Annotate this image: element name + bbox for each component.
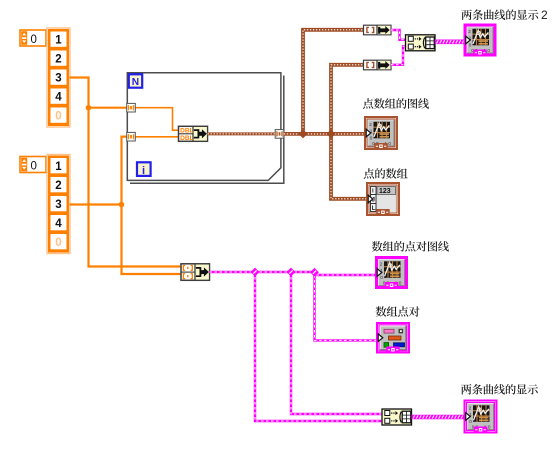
junctions on magenta trunk (251, 268, 260, 277)
bundle node inside loop (DBL,DBL -> cluster) (179, 126, 208, 142)
array constant: second numeric array (1..4) (20, 155, 70, 254)
label: 两条曲线的显示 (461, 384, 538, 395)
svg-text:N: N (132, 77, 139, 88)
bundle node below loop (arrays -> cluster of arrays) (181, 264, 210, 281)
converter node 1 (array to cluster) (364, 25, 392, 35)
branch up to converter node 2 (331, 65, 364, 134)
svg-text:0: 0 (55, 237, 61, 249)
cluster-array wire trunk from loop to graph terminal (brown) (284, 132, 366, 136)
cluster-array rope: build node to XY graph 2 (thick magenta) (435, 39, 464, 44)
svg-text:3: 3 (55, 73, 61, 85)
label: 点的数组 (364, 168, 408, 178)
svg-text:4: 4 (55, 218, 62, 230)
cluster indicator terminal: 数组点对 (377, 323, 409, 353)
branch down to build-cluster-array upper input (291, 272, 383, 414)
label: 数组的点对图线 (372, 241, 449, 252)
cluster wire: bundle to right tunnel (brown) (208, 132, 276, 135)
build cluster array node (top) (406, 35, 436, 51)
cluster wire: node1 to build-cluster-array (magenta) (391, 30, 406, 40)
branch up to converter node 1 (303, 30, 364, 134)
svg-text:DBL: DBL (180, 135, 194, 142)
XY graph terminal: 两条曲线的显示 (465, 401, 497, 434)
svg-text:0: 0 (31, 161, 37, 173)
junction dots on brown trunk (298, 129, 307, 138)
branch down to build-cluster-array lower input (255, 272, 383, 421)
branch down to cluster indicator (315, 275, 378, 340)
svg-text:1: 1 (55, 35, 62, 47)
array constant: top-left numeric array (1..4) (20, 28, 70, 127)
svg-text:2: 2 (55, 180, 61, 192)
svg-text:i: i (142, 165, 145, 177)
wire: array2 to loop tunnel and bundle2 (orange DBL array) (70, 137, 182, 274)
iteration terminal i (137, 162, 151, 176)
build cluster array node (bottom) (382, 409, 412, 425)
cluster wire trunk: bundle2 to XY graph terminal (magenta dashed) (210, 272, 377, 275)
label: 数组点对 (376, 306, 420, 316)
XY graph terminal: 数组的点对图线 (376, 257, 407, 289)
svg-text:2: 2 (55, 54, 61, 66)
junction on array1 wire (86, 105, 92, 111)
svg-text:0: 0 (55, 111, 61, 123)
waveform graph terminal: 点数组的图线 (365, 117, 397, 150)
cluster-array rope: build node to XY graph (thick magenta) (412, 415, 465, 420)
svg-text:1: 1 (55, 161, 62, 173)
svg-text:2: 2 (541, 8, 548, 22)
wire: tunnel1 to bundle inside loop (orange scalar) (135, 108, 179, 131)
cluster wire: node2 to build-cluster-array (magenta) (391, 46, 406, 65)
converter node 2 (array to cluster) (364, 60, 392, 70)
svg-text:DBL: DBL (180, 128, 194, 135)
tunnel: auto-index input 2 (127, 132, 136, 141)
for loop frame (127, 73, 283, 184)
svg-text:3: 3 (55, 199, 61, 211)
array indicator terminal: 点的数组 (367, 183, 399, 216)
tunnel: auto-index input 1 (127, 103, 136, 112)
label: 点数组的图线 (363, 98, 429, 109)
svg-text:4: 4 (55, 92, 62, 104)
junction on array2 wire (119, 202, 125, 208)
svg-text:0: 0 (31, 34, 37, 46)
branch down to array indicator (331, 134, 368, 199)
wire: array1 to loop tunnel and bundle2 (orange DBL array) (70, 78, 182, 267)
loop count terminal N (129, 74, 142, 87)
tunnel: auto-index output (cluster array) (275, 130, 284, 139)
label: 两条曲线的显示 2 (462, 9, 539, 20)
XY graph terminal: 两条曲线的显示 2 (465, 25, 496, 57)
wire: tunnel2 to bundle inside loop (orange scalar) (135, 136, 179, 138)
